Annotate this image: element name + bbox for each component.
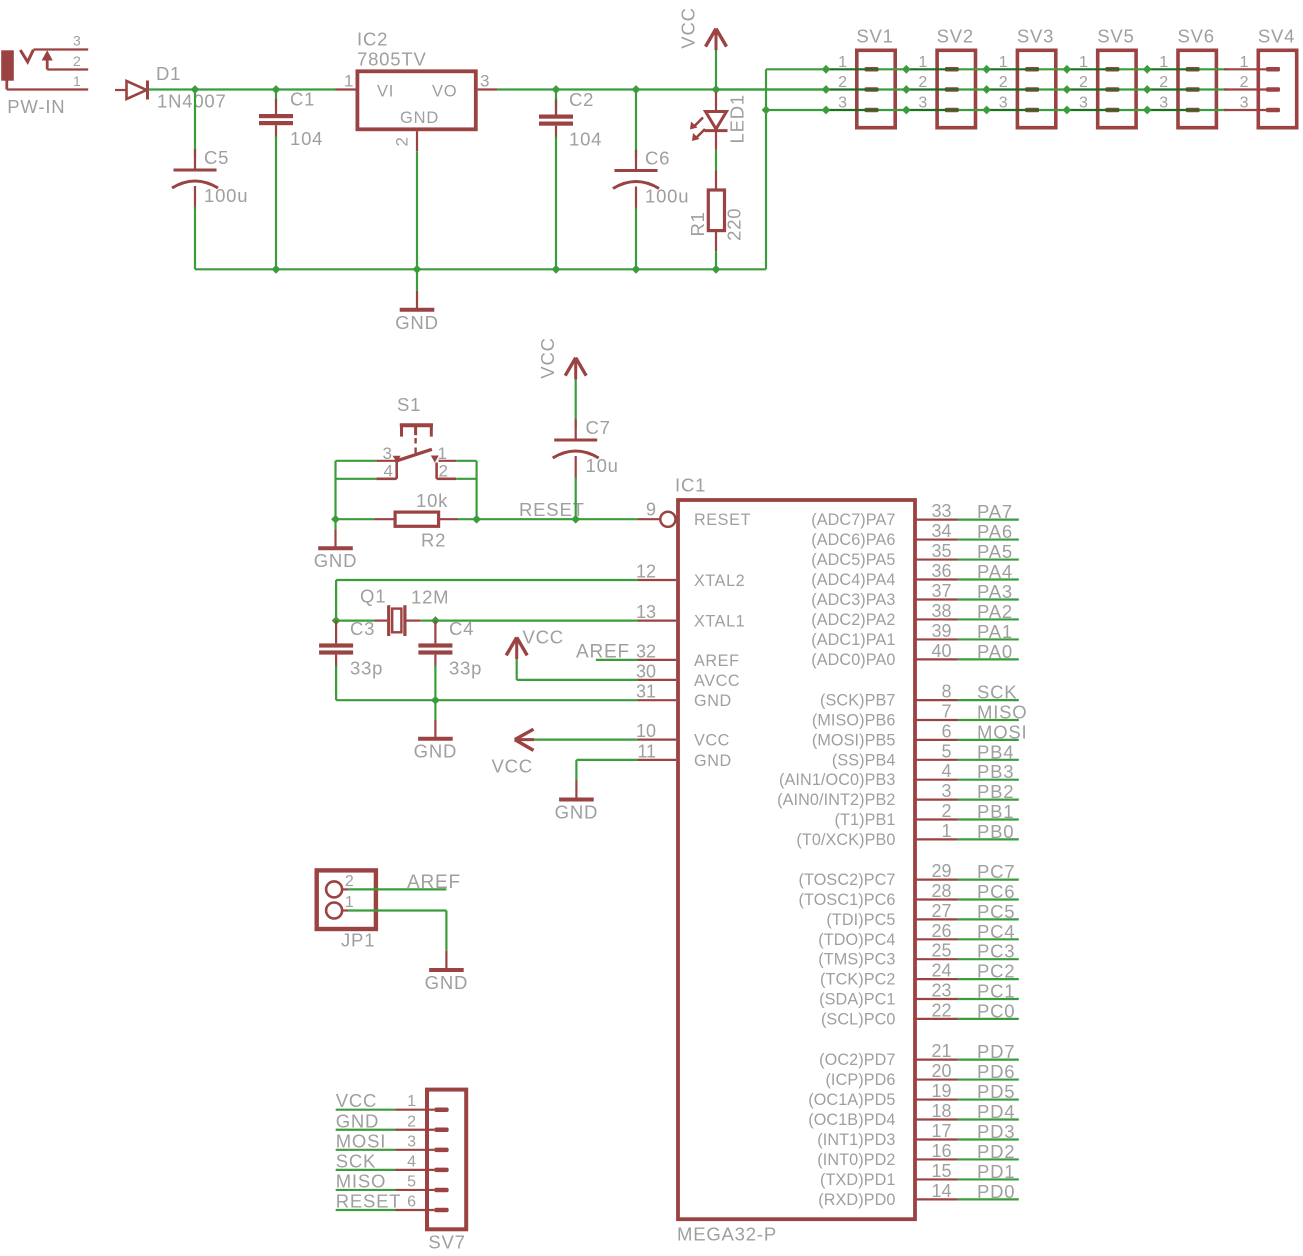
svg-text:14: 14 [931, 1181, 951, 1201]
svg-text:(ADC5)PA5: (ADC5)PA5 [811, 551, 895, 569]
IC1 pin 28 PC6 [799, 881, 1019, 909]
IC1 pin 18 PD4 [808, 1101, 1019, 1129]
svg-text:35: 35 [931, 541, 951, 561]
ground [395, 269, 439, 333]
svg-text:1: 1 [345, 894, 354, 911]
node GND junction at C1 bottom [272, 265, 281, 274]
svg-text:100u: 100u [645, 186, 689, 207]
IC1 pin 38 PA2 [811, 601, 1019, 629]
wire VCC net to IC1 pin 10 [534, 738, 637, 740]
svg-text:PC3: PC3 [977, 941, 1015, 962]
svg-text:(OC1A)PD5: (OC1A)PD5 [808, 1091, 895, 1109]
svg-text:PD5: PD5 [977, 1081, 1015, 1102]
svg-text:3: 3 [480, 72, 489, 91]
microcontroller IC1 MEGA32-P body [678, 500, 915, 1219]
svg-text:4: 4 [407, 1153, 416, 1170]
svg-text:PC7: PC7 [977, 861, 1015, 882]
svg-text:GND: GND [395, 312, 439, 333]
svg-text:16: 16 [931, 1141, 951, 1161]
svg-text:(INT0)PD2: (INT0)PD2 [817, 1151, 895, 1169]
wire SCK net to SV7 pin 4 [336, 1169, 435, 1171]
wire MISO net to SV7 pin 5 [336, 1189, 435, 1191]
svg-text:(AIN0/INT2)PB2: (AIN0/INT2)PB2 [777, 791, 895, 809]
svg-text:PC4: PC4 [977, 921, 1015, 942]
wire C5 branch from VIN rail [194, 90, 196, 151]
svg-text:100u: 100u [204, 185, 248, 206]
svg-text:PC0: PC0 [977, 1000, 1015, 1021]
junction nodes at SV6 pins [1143, 65, 1152, 115]
IC1 pin 35 PA5 [811, 541, 1019, 569]
capacitor C2 [539, 89, 602, 269]
svg-text:24: 24 [931, 961, 951, 981]
svg-text:(AIN1/OC0)PB3: (AIN1/OC0)PB3 [779, 771, 895, 789]
svg-text:1: 1 [407, 1093, 416, 1110]
IC1 pin 3 PB2 [777, 781, 1019, 809]
IC1 pin 7 MISO [812, 702, 1028, 730]
capacitor C1 [259, 89, 323, 270]
node GND junction at header row 3 riser [762, 106, 771, 115]
wire IC1 pin12 lead [637, 579, 676, 581]
svg-text:4: 4 [384, 462, 393, 481]
svg-text:6: 6 [941, 721, 951, 741]
svg-text:104: 104 [569, 129, 602, 150]
svg-text:S1: S1 [397, 394, 421, 415]
svg-text:IC1: IC1 [675, 475, 706, 496]
svg-text:PA3: PA3 [977, 581, 1013, 602]
svg-text:(ADC7)PA7: (ADC7)PA7 [811, 511, 895, 529]
svg-text:PC2: PC2 [977, 961, 1015, 982]
svg-text:13: 13 [636, 602, 656, 622]
wires and pins of SV5 [1067, 69, 1147, 110]
svg-text:PB1: PB1 [977, 801, 1014, 822]
svg-text:(MISO)PB6: (MISO)PB6 [812, 712, 896, 730]
wire RESET net to SV7 pin 6 [336, 1209, 435, 1211]
svg-text:1: 1 [941, 821, 951, 841]
capacitor C5 [172, 147, 248, 269]
svg-text:VCC: VCC [492, 756, 533, 777]
svg-text:VCC: VCC [523, 627, 564, 648]
svg-text:2: 2 [345, 873, 354, 890]
svg-text:10u: 10u [586, 455, 619, 476]
resistor R2 10k [336, 512, 459, 526]
ground [555, 780, 599, 823]
svg-text:40: 40 [931, 641, 951, 661]
wire XTAL1 net to IC1 pin 13 [435, 619, 637, 621]
wire AREF net from JP1 pin2 [348, 888, 446, 890]
svg-text:PB4: PB4 [977, 741, 1014, 762]
header SV2 [918, 26, 975, 128]
svg-text:21: 21 [931, 1041, 951, 1061]
svg-text:1: 1 [438, 444, 447, 463]
wire R1 to GND rail [715, 251, 717, 269]
svg-text:33p: 33p [449, 657, 482, 678]
capacitor C7 [553, 417, 619, 519]
header SV7 (ISP) [427, 1090, 466, 1230]
VCC symbol for AVCC [506, 637, 527, 680]
svg-text:AREF: AREF [407, 872, 461, 893]
svg-text:28: 28 [931, 881, 951, 901]
svg-text:2: 2 [439, 462, 448, 481]
svg-text:(ADC1)PA1: (ADC1)PA1 [811, 631, 895, 649]
svg-text:GND: GND [694, 752, 732, 770]
svg-text:C5: C5 [204, 147, 229, 168]
svg-text:(ADC2)PA2: (ADC2)PA2 [811, 611, 895, 629]
IC1 pin 15 PD1 [820, 1161, 1019, 1189]
wire IC1 pin30 lead [637, 679, 676, 681]
IC1 pin 16 PD2 [817, 1141, 1019, 1169]
svg-text:C7: C7 [586, 417, 611, 438]
IC1 pin 40 PA0 [811, 641, 1019, 669]
svg-text:SV3: SV3 [1017, 26, 1054, 47]
node GND junction at C2 bottom [552, 265, 561, 274]
svg-text:(INT1)PD3: (INT1)PD3 [817, 1131, 895, 1149]
svg-text:SCK: SCK [977, 682, 1017, 703]
svg-text:(TCK)PC2: (TCK)PC2 [820, 971, 895, 989]
wire C6 branch [635, 90, 637, 153]
wire IC1 pin11 lead [637, 759, 676, 761]
regulator IC2 7805TV [357, 71, 475, 129]
svg-text:MISO: MISO [336, 1170, 386, 1191]
wire AGND net C3 to C4 to IC1 pin 31 [336, 699, 637, 701]
svg-text:4: 4 [941, 761, 951, 781]
IC1 pin 39 PA1 [811, 621, 1019, 649]
resistor R1 [708, 171, 724, 251]
svg-text:R2: R2 [421, 530, 446, 551]
header SV4 [1240, 26, 1297, 128]
VCC symbol above LED1 [706, 29, 727, 90]
svg-text:VCC: VCC [678, 7, 699, 48]
svg-text:(TDO)PC4: (TDO)PC4 [818, 931, 895, 949]
node GND junction at IC2 GND [413, 265, 422, 274]
svg-text:39: 39 [931, 621, 951, 641]
wire header row 1 from riser corner [766, 68, 826, 70]
wire IC1 pin32 lead [637, 659, 676, 661]
svg-text:19: 19 [931, 1081, 951, 1101]
node junction XTAL1/C4 [431, 616, 440, 625]
svg-text:30: 30 [636, 662, 656, 682]
svg-text:37: 37 [931, 581, 951, 601]
IC1 left pin names [694, 511, 751, 770]
connector JP1 (AREF jumper) [317, 870, 376, 929]
svg-text:(TMS)PC3: (TMS)PC3 [818, 951, 895, 969]
svg-text:GND: GND [336, 1110, 380, 1131]
ground [414, 700, 458, 762]
svg-text:PC6: PC6 [977, 881, 1015, 902]
svg-text:PA4: PA4 [977, 561, 1013, 582]
svg-text:(TOSC2)PC7: (TOSC2)PC7 [799, 871, 896, 889]
svg-text:VCC: VCC [336, 1090, 377, 1111]
wire AVCC net to IC1 pin 30 [517, 679, 638, 681]
svg-text:PD7: PD7 [977, 1041, 1015, 1062]
svg-text:C6: C6 [645, 148, 670, 169]
node junction S1-left / R2 / GND [331, 515, 340, 524]
svg-text:12M: 12M [411, 587, 449, 608]
IC1 pin 20 PD6 [825, 1061, 1018, 1089]
svg-text:(RXD)PD0: (RXD)PD0 [818, 1191, 895, 1209]
svg-text:20: 20 [931, 1061, 951, 1081]
wire RESET net to IC1 pin 9 [458, 518, 637, 520]
wire IC1 pin9 lead with inversion bubble [637, 512, 675, 527]
wire VIN net: D1 cathode to C5 junction to C1 to IC2 pin 1 [149, 88, 336, 90]
wire IC2 pin1 lead [336, 88, 356, 90]
svg-text:(SCK)PB7: (SCK)PB7 [820, 692, 895, 710]
svg-text:3: 3 [383, 444, 392, 463]
node junction RESET at C7 [571, 515, 580, 524]
svg-text:PA0: PA0 [977, 641, 1013, 662]
VCC arrow (left) at IC1 pin 10 [515, 729, 534, 750]
svg-text:PC5: PC5 [977, 901, 1015, 922]
ground [425, 951, 469, 994]
svg-text:PD1: PD1 [977, 1161, 1015, 1182]
IC1 pin 8 SCK [820, 682, 1019, 710]
svg-text:XTAL2: XTAL2 [694, 572, 745, 590]
wire header row 3 from riser junction [766, 109, 826, 111]
svg-text:PB3: PB3 [977, 761, 1014, 782]
svg-text:SV7: SV7 [428, 1232, 465, 1253]
svg-text:(ICP)PD6: (ICP)PD6 [825, 1071, 895, 1089]
wire C2 branch [555, 90, 557, 116]
svg-text:1: 1 [344, 72, 353, 91]
svg-text:GND: GND [694, 692, 732, 710]
IC1 pin 36 PA4 [811, 561, 1019, 589]
switch S1 (push button) [376, 425, 456, 479]
wire AREF net stub at IC1 pin 32 [596, 659, 637, 661]
IC1 pin 29 PC7 [799, 861, 1019, 889]
wires and pins of SV6 [1147, 69, 1227, 110]
LED LED1 [690, 92, 728, 149]
svg-text:PC1: PC1 [977, 981, 1015, 1002]
svg-text:25: 25 [931, 941, 951, 961]
VCC symbol above C7 [565, 358, 586, 419]
node VCC junction at C2 [552, 85, 561, 94]
node junction XTAL2/C3 [332, 616, 341, 625]
wire header row 2 from LED junction [716, 88, 826, 90]
IC1 pin 1 PB0 [796, 821, 1018, 849]
node VIN junction at C5 [191, 85, 200, 94]
wire IC1 pin31 lead [637, 699, 676, 701]
svg-text:C3: C3 [350, 618, 375, 639]
svg-text:26: 26 [931, 921, 951, 941]
svg-text:32: 32 [636, 642, 656, 662]
svg-text:GND: GND [400, 109, 439, 127]
svg-text:36: 36 [931, 561, 951, 581]
svg-text:GND: GND [555, 802, 599, 823]
svg-text:(OC2)PD7: (OC2)PD7 [819, 1051, 895, 1069]
svg-text:(MOSI)PB5: (MOSI)PB5 [812, 731, 896, 749]
header SV1 [838, 26, 895, 128]
svg-text:10: 10 [636, 721, 656, 741]
IC1 pin 33 PA7 [811, 501, 1019, 529]
wire XTAL2 net to IC1 pin 12 [336, 579, 637, 581]
svg-text:IC2: IC2 [357, 29, 388, 50]
svg-text:(TOSC1)PC6: (TOSC1)PC6 [799, 891, 896, 909]
svg-text:7805TV: 7805TV [357, 49, 427, 70]
node VIN junction at C1 [272, 85, 281, 94]
svg-text:D1: D1 [156, 63, 181, 84]
svg-text:(T0/XCK)PB0: (T0/XCK)PB0 [796, 831, 895, 849]
wire XTAL2 net: riser [335, 580, 337, 621]
IC1 pin 25 PC3 [818, 941, 1019, 969]
svg-text:3: 3 [73, 33, 81, 49]
svg-text:(SDA)PC1: (SDA)PC1 [819, 991, 895, 1009]
svg-text:18: 18 [931, 1101, 951, 1121]
svg-text:(ADC3)PA3: (ADC3)PA3 [811, 591, 895, 609]
diode D1 1N4007 [115, 81, 148, 100]
svg-text:33p: 33p [350, 657, 383, 678]
IC1 pin 2 PB1 [835, 801, 1019, 829]
svg-text:31: 31 [636, 682, 656, 702]
svg-text:JP1: JP1 [341, 930, 375, 951]
wire IC1 pin13 lead [637, 619, 676, 621]
ground [314, 519, 358, 571]
wire GND rail [195, 69, 766, 269]
svg-text:5: 5 [941, 741, 951, 761]
svg-text:PW-IN: PW-IN [7, 96, 65, 117]
svg-text:(T1)PB1: (T1)PB1 [835, 811, 896, 829]
svg-text:PA7: PA7 [977, 501, 1013, 522]
IC1 pin 4 PB3 [779, 761, 1019, 789]
pin leads of SV4 [1224, 69, 1269, 110]
wires and pins of SV3 [987, 69, 1067, 110]
connector PW-IN (power jack) [1, 50, 88, 90]
svg-text:AVCC: AVCC [694, 672, 740, 690]
svg-text:Q1: Q1 [360, 586, 386, 607]
svg-text:PD6: PD6 [977, 1061, 1015, 1082]
svg-text:MOSI: MOSI [977, 721, 1027, 742]
svg-text:38: 38 [931, 601, 951, 621]
IC1 pin 6 MOSI [812, 721, 1028, 749]
svg-text:LED1: LED1 [727, 94, 748, 143]
wire VCC net: IC2 pin3 to C2, C6, LED1, headers [478, 88, 498, 90]
svg-text:VI: VI [377, 83, 394, 101]
wires and pins of SV2 [906, 69, 986, 110]
IC1 pin 5 PB4 [832, 741, 1019, 769]
svg-text:PB0: PB0 [977, 821, 1014, 842]
wire LED1 to R1 [715, 149, 717, 172]
IC1 pin 14 PD0 [818, 1181, 1019, 1209]
IC1 pin 22 PC0 [821, 1000, 1019, 1028]
svg-text:27: 27 [931, 901, 951, 921]
svg-text:R1: R1 [687, 211, 708, 236]
svg-text:VCC: VCC [537, 337, 558, 378]
svg-text:RESET: RESET [694, 511, 751, 529]
svg-text:23: 23 [931, 981, 951, 1001]
svg-text:SV2: SV2 [937, 26, 974, 47]
IC1 pin 34 PA6 [811, 521, 1019, 549]
wire S1 left to RESET junction [336, 461, 377, 519]
svg-text:2: 2 [941, 801, 951, 821]
svg-text:220: 220 [724, 208, 745, 241]
wire IC2 pin2 GND lead [416, 131, 418, 151]
svg-text:3: 3 [941, 781, 951, 801]
svg-text:10k: 10k [416, 490, 448, 511]
svg-text:SCK: SCK [336, 1150, 376, 1171]
svg-text:C1: C1 [290, 89, 315, 110]
svg-text:6: 6 [407, 1194, 416, 1211]
svg-text:15: 15 [931, 1161, 951, 1181]
svg-text:(OC1B)PD4: (OC1B)PD4 [808, 1111, 895, 1129]
node junction RESET at S1 right [472, 515, 481, 524]
svg-text:5: 5 [407, 1173, 416, 1190]
svg-text:PD3: PD3 [977, 1121, 1015, 1142]
svg-text:GND: GND [414, 741, 458, 762]
svg-text:PB2: PB2 [977, 781, 1014, 802]
node VCC junction at LED1 [712, 85, 721, 94]
svg-text:C4: C4 [449, 618, 474, 639]
svg-text:(SS)PB4: (SS)PB4 [832, 751, 896, 769]
svg-text:33: 33 [931, 501, 951, 521]
svg-text:17: 17 [931, 1121, 951, 1141]
wire S1 right to RESET net [456, 461, 476, 519]
capacitor C3 [319, 618, 383, 700]
IC1 pin 21 PD7 [819, 1041, 1019, 1069]
wire VCC net to SV7 pin 1 [336, 1109, 435, 1111]
svg-text:GND: GND [314, 550, 358, 571]
svg-text:AREF: AREF [576, 642, 630, 663]
svg-text:(ADC4)PA4: (ADC4)PA4 [811, 571, 895, 589]
svg-text:PA6: PA6 [977, 521, 1013, 542]
svg-text:2: 2 [407, 1113, 416, 1130]
svg-text:VCC: VCC [694, 732, 730, 750]
svg-text:XTAL1: XTAL1 [694, 613, 745, 631]
junction nodes at SV1 pins [822, 65, 831, 115]
junction nodes at SV2 pins [902, 65, 911, 115]
svg-text:2: 2 [393, 137, 412, 146]
svg-text:GND: GND [425, 972, 469, 993]
capacitor C6 [613, 148, 689, 270]
svg-text:(ADC6)PA6: (ADC6)PA6 [811, 531, 895, 549]
IC1 pin 17 PD3 [817, 1121, 1019, 1149]
svg-text:VO: VO [432, 83, 457, 101]
svg-text:SV4: SV4 [1258, 26, 1295, 47]
IC1 pin 26 PC4 [818, 921, 1019, 949]
svg-text:11: 11 [637, 741, 656, 761]
svg-text:1: 1 [73, 73, 81, 89]
crystal Q1 12MHz [336, 605, 435, 636]
svg-text:SV5: SV5 [1097, 26, 1134, 47]
svg-text:12: 12 [636, 562, 656, 582]
junction nodes at SV3 pins [982, 65, 991, 115]
svg-text:AREF: AREF [694, 652, 740, 670]
svg-text:MEGA32-P: MEGA32-P [677, 1224, 777, 1245]
svg-text:MISO: MISO [977, 702, 1027, 723]
IC1 pin 19 PD5 [808, 1081, 1019, 1109]
node junction at C4 bottom / GND [431, 696, 440, 705]
svg-text:C2: C2 [569, 89, 594, 110]
wires and pins of SV1 [826, 69, 906, 110]
svg-text:SV1: SV1 [856, 26, 893, 47]
svg-text:2: 2 [73, 53, 81, 69]
svg-text:(TXD)PD1: (TXD)PD1 [820, 1171, 895, 1189]
capacitor C4 [418, 618, 482, 700]
svg-text:9: 9 [646, 500, 656, 520]
svg-text:3: 3 [407, 1133, 416, 1150]
node GND junction at R1 bottom [712, 265, 721, 274]
wire GND net to SV7 pin 2 [336, 1129, 435, 1131]
svg-text:PD0: PD0 [977, 1181, 1015, 1202]
svg-text:MOSI: MOSI [336, 1130, 386, 1151]
header SV3 [999, 26, 1056, 128]
svg-text:RESET: RESET [336, 1191, 402, 1212]
wire IC1 pin10 lead [637, 738, 676, 740]
svg-text:PA1: PA1 [977, 621, 1013, 642]
node GND junction at C6 bottom [632, 265, 641, 274]
svg-text:34: 34 [931, 521, 951, 541]
svg-text:PD2: PD2 [977, 1141, 1015, 1162]
wire IC2 GND to rail [416, 151, 418, 269]
node VCC junction at C6 [632, 85, 641, 94]
IC1 pin 27 PC5 [826, 901, 1018, 929]
